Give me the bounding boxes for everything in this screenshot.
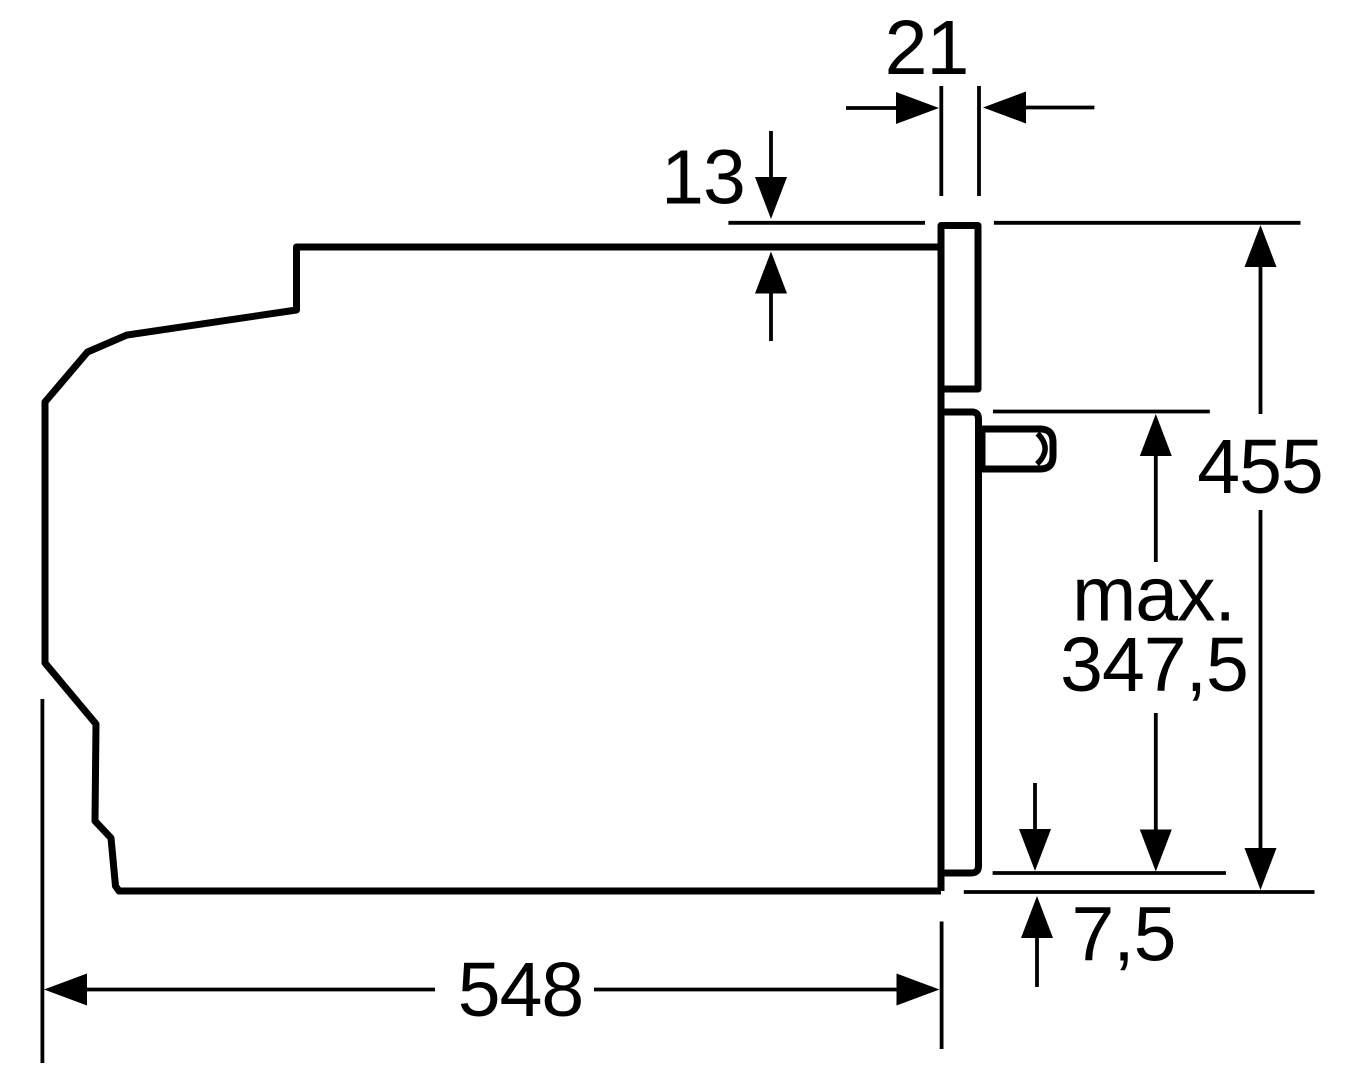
- dim 548 left arrow: [44, 974, 87, 1006]
- dim 7,5 down arrow: [1033, 783, 1037, 830]
- 21 extension line left: [939, 86, 943, 196]
- svg-text:347,5: 347,5: [1060, 622, 1248, 708]
- svg-text:455: 455: [1197, 424, 1322, 510]
- niche top line left segment: [728, 221, 925, 225]
- 548 left extension line: [41, 699, 45, 1063]
- oven door: [938, 412, 979, 873]
- mid reference line: [993, 410, 1210, 414]
- niche top line right segment: [994, 221, 1301, 225]
- dim 13 up arrow: [769, 292, 773, 342]
- svg-text:7,5: 7,5: [1071, 892, 1175, 978]
- dim 455 bottom arrow: [1259, 510, 1263, 849]
- 21 extension line right: [977, 86, 981, 196]
- handle edge arc: [1037, 434, 1045, 465]
- oven front face vertical: [938, 389, 945, 891]
- dim 455 top arrow: [1245, 225, 1277, 267]
- dim 347,5 down arrow: [1154, 713, 1158, 831]
- lower reference line B: [964, 890, 1315, 894]
- dim 347,5 up arrow: [1140, 414, 1172, 456]
- dim 548 right arrow: [594, 988, 898, 992]
- svg-text:13: 13: [661, 135, 745, 221]
- dim 21 right arrow: [1024, 106, 1094, 110]
- 548 right extension line: [940, 922, 944, 1050]
- dim 21 left arrow: [846, 106, 898, 110]
- lower reference line A: [993, 871, 1226, 875]
- dim 7,5 up arrow: [1021, 896, 1053, 938]
- svg-text:21: 21: [885, 5, 969, 91]
- dim 13 down arrow: [769, 131, 773, 179]
- door handle: [982, 429, 1053, 469]
- oven body outline: [45, 247, 941, 891]
- oven door top trim rectangle: [941, 226, 978, 390]
- svg-text:548: 548: [458, 947, 583, 1033]
